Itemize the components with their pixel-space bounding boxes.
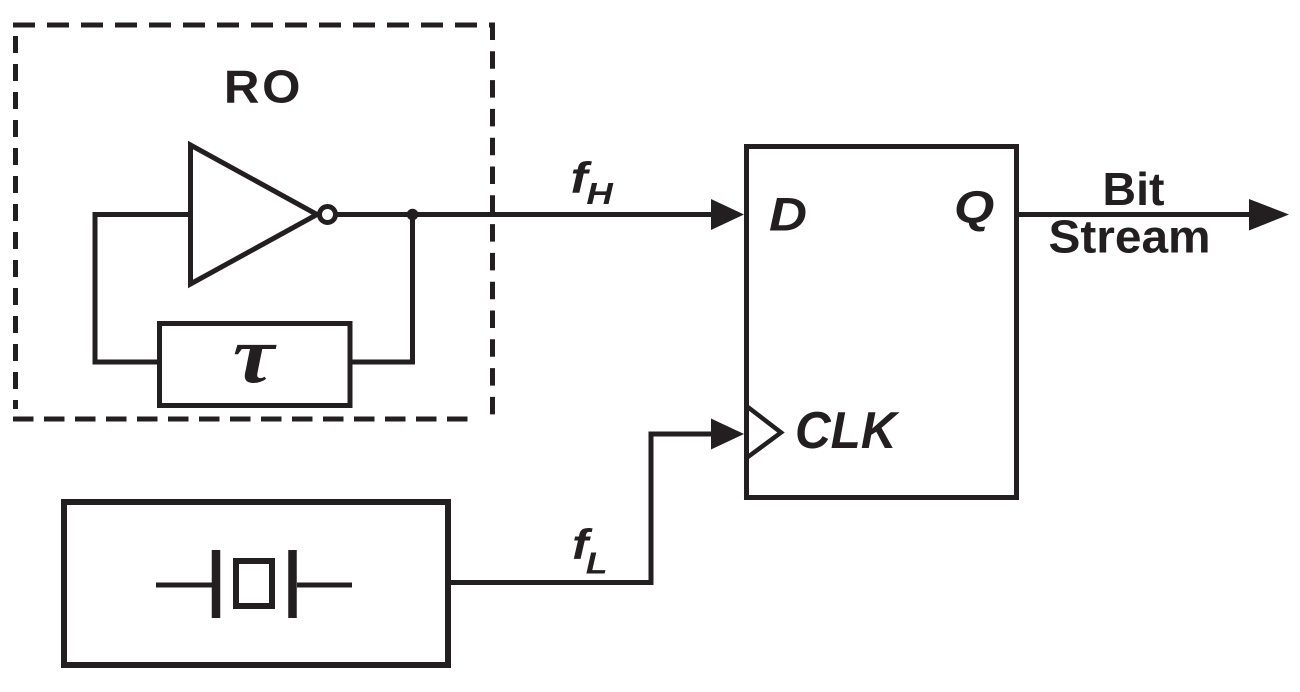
svg-text:RO: RO xyxy=(224,62,303,113)
svg-text:Q: Q xyxy=(954,183,994,233)
svg-text:L: L xyxy=(586,547,608,581)
svg-text:D: D xyxy=(769,188,807,241)
svg-text:Bit: Bit xyxy=(1103,163,1165,215)
svg-text:CLK: CLK xyxy=(795,401,900,459)
svg-text:H: H xyxy=(586,177,614,212)
svg-text:τ: τ xyxy=(233,310,278,400)
svg-text:Stream: Stream xyxy=(1048,211,1210,262)
